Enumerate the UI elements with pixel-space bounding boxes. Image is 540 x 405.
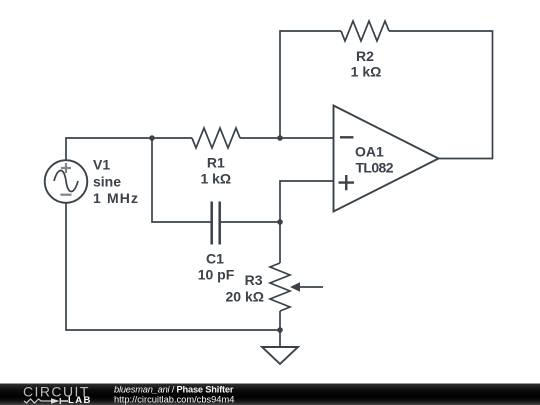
wire node A to R1 [152, 137, 192, 139]
wire R1 to node B [240, 137, 280, 139]
svg-text:V1: V1 [93, 157, 110, 173]
node B junction dot [277, 135, 283, 141]
svg-text:http://circuitlab.com/cbs94m4: http://circuitlab.com/cbs94m4 [114, 394, 234, 404]
svg-text:sine: sine [93, 174, 121, 190]
voltage source V1 circle [45, 160, 88, 203]
wire C1 to node C [220, 221, 280, 223]
svg-text:1 kΩ: 1 kΩ [351, 64, 382, 80]
CircuitLab logo diode [51, 398, 60, 404]
node D junction dot [277, 327, 283, 333]
potentiometer R3 zigzag [270, 263, 290, 311]
node A junction dot [149, 135, 155, 141]
svg-text:LAB: LAB [68, 395, 92, 405]
wire R2 to op-amp output (feedback right) [389, 31, 493, 159]
wire node C down to R3 [279, 222, 281, 263]
svg-text:1 kΩ: 1 kΩ [200, 171, 231, 187]
V1 sine wave [54, 171, 78, 192]
svg-text:TL082: TL082 [356, 160, 394, 176]
resistor R1 [192, 128, 240, 148]
op-amp minus marker [340, 136, 354, 138]
wire node B to op-amp inverting input [280, 137, 334, 139]
svg-text:1 MHz: 1 MHz [93, 190, 138, 206]
potentiometer R3 arrowhead [290, 282, 300, 291]
wire R3 to node D [279, 311, 281, 330]
svg-text:R2: R2 [356, 48, 374, 64]
svg-text:C1: C1 [206, 251, 224, 267]
wire node C up to op-amp non-inverting input [280, 181, 334, 222]
svg-text:R1: R1 [207, 155, 225, 171]
svg-text:20 kΩ: 20 kΩ [226, 289, 264, 305]
wire V1 top to node A [66, 138, 152, 160]
svg-text:bluesman_ani / Phase Shifter: bluesman_ani / Phase Shifter [114, 384, 234, 394]
ground symbol [262, 347, 298, 364]
V1 plus sign [61, 163, 71, 173]
wire node A down to C1 [152, 138, 212, 222]
svg-text:OA1: OA1 [355, 144, 384, 160]
svg-text:10 pF: 10 pF [198, 267, 235, 283]
op-amp plus marker [339, 175, 355, 190]
wire node B up to R2 (feedback left) [280, 31, 341, 138]
op-amp U1 triangle [334, 106, 439, 212]
wire node D to V1 bottom [66, 203, 280, 330]
svg-text:R3: R3 [245, 272, 263, 288]
potentiometer R3 wiper arrow line [298, 286, 323, 288]
V1 minus sign [61, 194, 72, 196]
capacitor C1 plates [212, 202, 220, 245]
node C junction dot [277, 219, 283, 225]
CircuitLab logo resistor zigzag [24, 399, 51, 403]
resistor R2 [341, 21, 389, 41]
wire node D to ground [279, 330, 281, 347]
